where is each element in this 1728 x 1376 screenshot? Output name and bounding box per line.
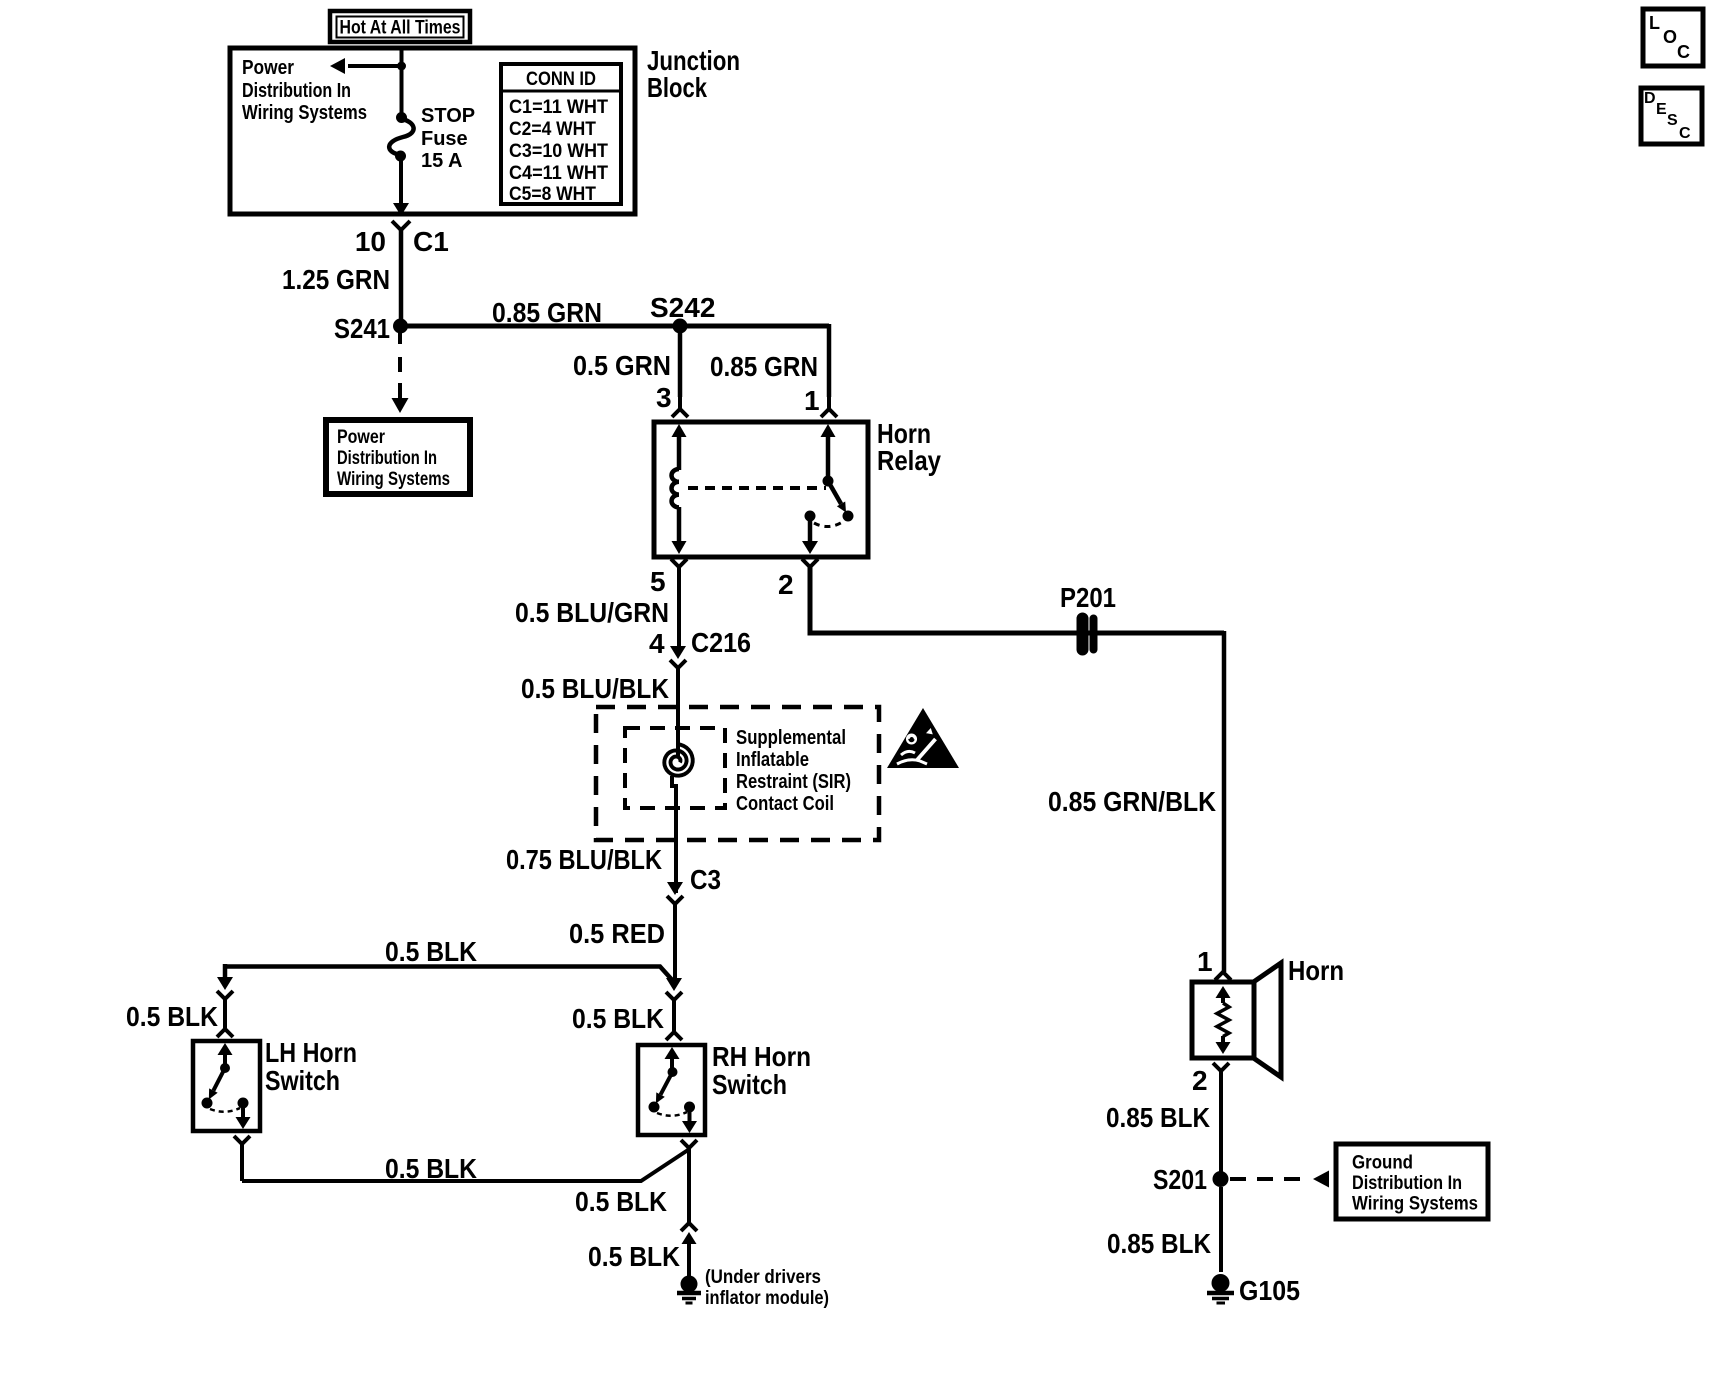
svg-text:Hot At All Times: Hot At All Times — [340, 18, 461, 39]
svg-text:0.5 BLK: 0.5 BLK — [575, 1186, 667, 1217]
svg-text:0.5 BLK: 0.5 BLK — [572, 1003, 664, 1034]
svg-text:C1=11 WHT: C1=11 WHT — [509, 97, 608, 118]
svg-text:0.75 BLU/BLK: 0.75 BLU/BLK — [506, 844, 662, 875]
wire C3 down (0.5 RED) — [673, 904, 677, 982]
svg-text:1: 1 — [1197, 946, 1213, 977]
svg-text:4: 4 — [649, 628, 665, 659]
dashed contact arc — [814, 521, 844, 527]
in-line connector above LH horn switch — [217, 977, 233, 990]
splice S241 — [393, 319, 408, 334]
junction dot at branch — [397, 62, 406, 71]
svg-text:0.5 BLK: 0.5 BLK — [588, 1241, 680, 1272]
horn body — [1192, 982, 1254, 1058]
svg-text:CONN ID: CONN ID — [526, 69, 596, 90]
wire corner down to relay pin 1 (0.85 GRN) — [827, 324, 832, 397]
svg-text:1.25 GRN: 1.25 GRN — [282, 264, 390, 295]
wire pin5 down (0.5 BLU/GRN) — [677, 567, 681, 650]
LOC icon — [1643, 9, 1703, 66]
svg-text:0.5 BLK: 0.5 BLK — [126, 1001, 218, 1032]
Ground Distribution In Wiring Systems reference box — [1336, 1144, 1488, 1219]
switch pivot — [823, 476, 834, 487]
connector fork above horn — [1215, 972, 1231, 980]
svg-text:Switch: Switch — [712, 1069, 787, 1100]
fork below RH switch — [681, 1140, 697, 1148]
dashed reference arrow from S241 down — [398, 333, 402, 344]
connector C216 — [670, 646, 686, 659]
wire relay C216 to SIR (0.5 BLU/BLK) — [676, 668, 680, 758]
svg-text:Block: Block — [647, 72, 707, 103]
connector C1 fork below junction block — [392, 221, 410, 230]
fork below LH switch — [234, 1136, 250, 1144]
ground G105 — [1212, 1274, 1230, 1292]
SIR outer dashed box — [596, 707, 879, 840]
svg-text:0.85 GRN/BLK: 0.85 GRN/BLK — [1048, 786, 1216, 817]
wire from box top to fuse — [400, 48, 404, 115]
branch arrow to power distribution (left) — [348, 64, 402, 68]
pin 5 connector fork below relay — [671, 559, 687, 567]
DESC icon — [1641, 88, 1702, 144]
svg-text:Power: Power — [242, 57, 294, 79]
svg-text:0.5 RED: 0.5 RED — [569, 918, 665, 949]
svg-text:Inflatable: Inflatable — [736, 749, 809, 771]
svg-text:0.85 BLK: 0.85 BLK — [1107, 1228, 1211, 1259]
svg-text:5: 5 — [650, 566, 666, 597]
horn coil element — [1216, 986, 1231, 998]
svg-text:S242: S242 — [650, 292, 715, 323]
svg-text:1: 1 — [804, 385, 820, 416]
arrow at box bottom edge — [393, 203, 409, 216]
svg-text:Relay: Relay — [877, 445, 941, 476]
svg-text:Wiring Systems: Wiring Systems — [1352, 1194, 1478, 1215]
splice to horn switches: top 0.5 BLK wire — [225, 967, 674, 983]
svg-text:0.5 GRN: 0.5 GRN — [573, 350, 671, 381]
wire S242 down to relay pin 3 (0.5 GRN) — [678, 326, 683, 397]
switch blade with arrow — [828, 481, 841, 504]
svg-text:3: 3 — [656, 382, 672, 413]
ground (under drivers inflator module) — [681, 1276, 698, 1293]
svg-text:C1: C1 — [413, 226, 449, 257]
svg-text:2: 2 — [1192, 1065, 1208, 1096]
svg-text:Switch: Switch — [265, 1065, 340, 1096]
junction block outline — [230, 48, 635, 214]
svg-text:inflator module): inflator module) — [705, 1288, 829, 1309]
switch fixed contact — [805, 511, 816, 522]
svg-text:Distribution In: Distribution In — [242, 80, 351, 102]
svg-text:Distribution In: Distribution In — [337, 448, 437, 469]
svg-text:Power: Power — [337, 427, 385, 448]
wire below spiral — [672, 776, 676, 893]
svg-text:0.5 BLK: 0.5 BLK — [385, 936, 477, 967]
svg-text:(Under drivers: (Under drivers — [705, 1267, 821, 1288]
svg-text:0.5 BLU/GRN: 0.5 BLU/GRN — [515, 597, 669, 628]
svg-text:E: E — [1656, 101, 1667, 118]
svg-text:Restraint (SIR): Restraint (SIR) — [736, 771, 851, 793]
svg-text:S241: S241 — [334, 313, 390, 344]
svg-text:C: C — [1679, 125, 1691, 142]
fuse STOP 15A: top terminal dot — [396, 112, 407, 123]
svg-text:C: C — [1677, 42, 1690, 62]
svg-text:S: S — [1667, 112, 1678, 129]
RH switch internals — [665, 1047, 680, 1059]
fuse bottom terminal dot — [395, 151, 406, 162]
dashed reference arrow to ground distribution — [1230, 1177, 1311, 1181]
SIR warning triangle — [887, 708, 959, 768]
LH horn switch box — [193, 1041, 260, 1131]
wire contact to pin 2 — [808, 516, 813, 546]
Hot At All Times flag box — [330, 11, 470, 42]
svg-text:G105: G105 — [1239, 1275, 1300, 1306]
bottom 0.5 BLK wire joining switches — [242, 1150, 688, 1181]
svg-text:D: D — [1644, 90, 1656, 107]
svg-text:S201: S201 — [1153, 1164, 1207, 1195]
svg-text:0.85 GRN: 0.85 GRN — [710, 351, 818, 382]
wire pin2 down and right to horn — [810, 567, 1224, 633]
svg-text:P201: P201 — [1060, 582, 1116, 613]
LH switch internals — [218, 1043, 233, 1055]
wire S241 to S242 (0.85 GRN) — [400, 324, 829, 329]
fuse element (S-curve) — [389, 119, 413, 155]
svg-text:Horn: Horn — [1288, 955, 1344, 986]
svg-text:LH Horn: LH Horn — [265, 1037, 357, 1068]
pin 1 connector fork — [827, 397, 831, 409]
in-line connector above RH horn switch — [666, 978, 682, 991]
svg-text:C3=10 WHT: C3=10 WHT — [509, 141, 608, 162]
svg-text:STOP: STOP — [421, 105, 475, 127]
svg-text:Wiring Systems: Wiring Systems — [242, 102, 367, 124]
svg-text:0.5 BLK: 0.5 BLK — [385, 1153, 477, 1184]
wire horn to S201 (0.85 BLK) — [1219, 1071, 1223, 1180]
SIR clockspring spiral — [664, 744, 692, 776]
wire C1 to S241 — [399, 230, 404, 326]
svg-text:Fuse: Fuse — [421, 128, 468, 150]
svg-text:Wiring Systems: Wiring Systems — [337, 469, 450, 490]
svg-text:C4=11 WHT: C4=11 WHT — [509, 163, 608, 184]
wire fuse to box bottom — [399, 156, 403, 204]
RH horn switch box — [638, 1045, 705, 1135]
svg-text:2: 2 — [778, 569, 794, 600]
svg-text:0.85 BLK: 0.85 BLK — [1106, 1102, 1210, 1133]
svg-text:Ground: Ground — [1352, 1153, 1413, 1174]
wire S201 to G105 (0.85 BLK) — [1219, 1187, 1223, 1272]
svg-text:0.5 BLU/BLK: 0.5 BLU/BLK — [521, 673, 669, 704]
svg-text:C5=8 WHT: C5=8 WHT — [509, 184, 596, 205]
splice S242 — [673, 319, 688, 334]
wire RH switch to ground — [687, 1148, 691, 1222]
in-line connector to ground lead — [681, 1223, 697, 1231]
CONN ID table — [501, 64, 621, 204]
svg-text:RH Horn: RH Horn — [712, 1041, 811, 1072]
svg-text:Contact Coil: Contact Coil — [736, 793, 834, 815]
svg-text:C216: C216 — [691, 627, 751, 658]
relay coil (pin3 to pin5) — [672, 424, 687, 437]
svg-text:15 A: 15 A — [421, 150, 463, 172]
pin 3 connector fork — [678, 397, 682, 409]
Power Distribution In Wiring Systems reference box — [326, 420, 470, 494]
connector fork below horn — [1213, 1063, 1229, 1071]
svg-text:O: O — [1663, 27, 1677, 47]
splice S201 — [1213, 1171, 1229, 1187]
horn relay outline — [654, 422, 868, 557]
svg-text:C3: C3 — [690, 864, 721, 895]
svg-text:0.85 GRN: 0.85 GRN — [492, 297, 602, 328]
svg-text:Distribution In: Distribution In — [1352, 1173, 1462, 1194]
svg-text:Supplemental: Supplemental — [736, 727, 846, 749]
svg-text:C2=4 WHT: C2=4 WHT — [509, 119, 596, 140]
relay actuation dashed link — [688, 486, 826, 490]
horn speaker cone — [1252, 963, 1281, 1077]
relay switch: pin1 wire — [821, 424, 836, 437]
svg-text:10: 10 — [355, 226, 386, 257]
pin 2 connector fork below relay — [802, 559, 818, 567]
SIR inner dashed box — [625, 728, 725, 808]
svg-text:L: L — [1649, 13, 1660, 33]
